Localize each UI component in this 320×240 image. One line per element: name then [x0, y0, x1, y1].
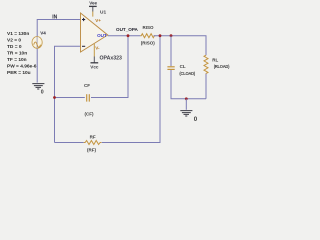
capacitor CF: [87, 94, 90, 101]
wire RF right segment up to after-RISO node: [102, 36, 160, 143]
svg-text:(RLOAD): (RLOAD): [214, 64, 230, 69]
svg-text:CF: CF: [84, 83, 90, 88]
svg-text:U1: U1: [100, 9, 106, 15]
V4 parameter list: [7, 31, 37, 76]
wire op-amp output to RISO: [108, 35, 141, 37]
ground 0 (load): [180, 111, 192, 116]
resistor RL: [204, 55, 208, 74]
svg-text:V1 = 130n: V1 = 130n: [7, 31, 29, 37]
wire IN: V4 top to op-amp +input: [37, 20, 80, 38]
svg-text:PW = 4.96e-6: PW = 4.96e-6: [7, 64, 37, 70]
svg-text:(CF): (CF): [85, 112, 94, 117]
svg-text:CL: CL: [180, 64, 186, 69]
svg-text:OUT_OPA: OUT_OPA: [116, 27, 139, 32]
junction feedback/CF node: [53, 96, 56, 99]
svg-text:IN: IN: [52, 15, 57, 21]
svg-text:(RISO): (RISO): [141, 40, 156, 45]
svg-text:RF: RF: [90, 134, 96, 139]
svg-text:V4: V4: [40, 31, 46, 36]
wire inverting input to feedback rail: [55, 46, 81, 142]
junction OUT_OPA / CF tap: [127, 34, 130, 37]
wire RISO to RL corner: [154, 36, 206, 56]
svg-text:Vcc: Vcc: [90, 64, 99, 69]
junction load ground node: [185, 97, 188, 100]
svg-text:OPAx323: OPAx323: [100, 56, 123, 62]
wire CF left segment: [55, 97, 85, 99]
resistor RF: [84, 141, 102, 145]
svg-text:OUT: OUT: [97, 33, 107, 38]
wire V4 bottom to ground: [36, 48, 38, 83]
resistor RISO: [140, 34, 155, 38]
svg-text:(CLOAD): (CLOAD): [179, 71, 195, 76]
svg-text:TR = 10n: TR = 10n: [7, 51, 27, 57]
svg-text:TF = 10n: TF = 10n: [7, 57, 27, 63]
wire RF left segment: [55, 142, 84, 144]
svg-text:V2 = 0: V2 = 0: [7, 38, 21, 44]
wire CL branch upper: [170, 36, 172, 66]
wire RL bottom: [205, 74, 207, 99]
wire CF right segment up to output node: [91, 36, 128, 98]
svg-text:TD = 0: TD = 0: [7, 44, 22, 50]
svg-text:V-: V-: [95, 46, 100, 51]
wire ground stem (load): [185, 99, 187, 110]
capacitor CL: [167, 67, 174, 70]
voltage source V4: [32, 37, 42, 49]
svg-text:0: 0: [41, 89, 44, 95]
wire CL branch lower: [171, 70, 206, 99]
svg-text:RISO: RISO: [142, 25, 154, 30]
svg-text:V+: V+: [95, 18, 101, 23]
svg-text:Vee: Vee: [89, 0, 97, 5]
svg-text:0: 0: [194, 116, 198, 123]
ground 0 (source): [32, 84, 44, 89]
svg-text:RL: RL: [212, 57, 218, 62]
svg-text:(RF): (RF): [87, 147, 96, 152]
junction RF tap after RISO: [159, 34, 162, 37]
power rail Vee (top): [89, 0, 98, 16]
svg-text:PER = 10u: PER = 10u: [7, 70, 31, 76]
junction CL tap: [170, 34, 173, 37]
power rail Vcc (bottom): [90, 44, 99, 70]
op-amp U1: [81, 13, 108, 52]
